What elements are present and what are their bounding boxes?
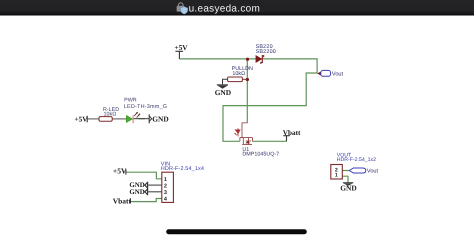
svg-text:+5V: +5V bbox=[75, 115, 89, 123]
svg-text:DMP1045UQ-7: DMP1045UQ-7 bbox=[242, 152, 279, 158]
svg-text:1: 1 bbox=[335, 173, 338, 179]
svg-text:1: 1 bbox=[164, 177, 167, 183]
svg-text:2: 2 bbox=[164, 183, 167, 189]
svg-text:GND: GND bbox=[340, 184, 356, 193]
svg-text:HDR-F-2.54_1x4: HDR-F-2.54_1x4 bbox=[161, 166, 204, 172]
svg-text:GND: GND bbox=[152, 114, 168, 123]
svg-text:Vout: Vout bbox=[332, 72, 344, 78]
svg-text:GND: GND bbox=[129, 189, 144, 196]
svg-text:Vbatt: Vbatt bbox=[113, 196, 132, 205]
svg-text:10kΩ: 10kΩ bbox=[104, 112, 117, 118]
svg-text:LED-TH-3mm_G: LED-TH-3mm_G bbox=[124, 104, 167, 110]
svg-text:+5V: +5V bbox=[174, 43, 188, 52]
svg-text:PWR: PWR bbox=[124, 98, 137, 104]
svg-text:SB2200: SB2200 bbox=[256, 49, 276, 55]
svg-text:Vout: Vout bbox=[367, 169, 379, 175]
svg-text:+5V: +5V bbox=[113, 167, 127, 176]
svg-text:u.easyeda.com: u.easyeda.com bbox=[189, 4, 260, 15]
svg-text:HDR-F-2.54_1x2: HDR-F-2.54_1x2 bbox=[337, 157, 376, 163]
svg-text:GND: GND bbox=[215, 88, 231, 97]
svg-text:3: 3 bbox=[164, 190, 167, 196]
svg-text:10kΩ: 10kΩ bbox=[232, 71, 245, 77]
